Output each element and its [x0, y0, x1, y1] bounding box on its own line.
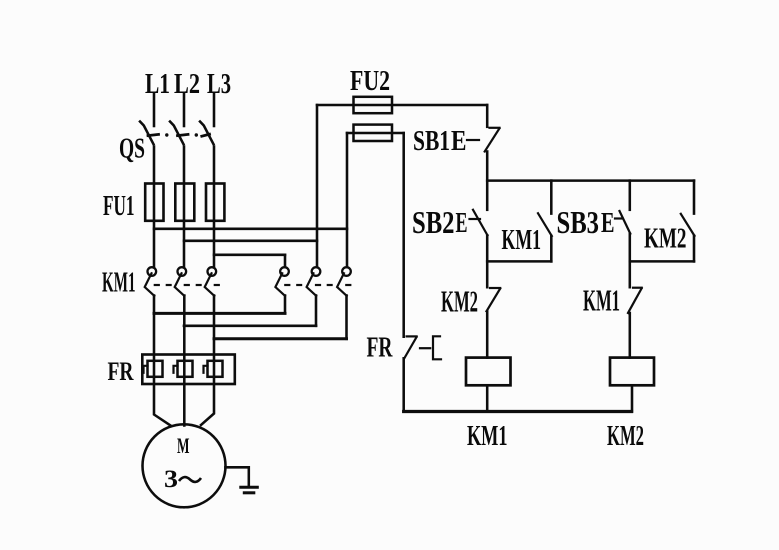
svg-text:KM2: KM2: [607, 421, 644, 452]
svg-text:L1: L1: [145, 69, 170, 100]
svg-text:E: E: [601, 208, 615, 239]
svg-text:E: E: [451, 126, 467, 157]
svg-text:3: 3: [164, 464, 178, 493]
svg-text:FU1: FU1: [103, 191, 135, 222]
svg-text:SB2: SB2: [412, 205, 455, 240]
svg-text:KM1: KM1: [102, 268, 136, 299]
svg-text:SB3: SB3: [557, 205, 600, 240]
svg-text:FR: FR: [367, 333, 394, 364]
svg-text:QS: QS: [119, 134, 145, 165]
svg-text:KM1: KM1: [467, 421, 508, 452]
svg-text:KM2: KM2: [441, 284, 478, 319]
svg-text:KM1: KM1: [583, 283, 620, 318]
svg-text:FR: FR: [108, 357, 134, 386]
svg-text:SB1: SB1: [413, 125, 450, 157]
svg-text:L2: L2: [174, 69, 200, 100]
svg-text:L3: L3: [207, 69, 231, 100]
svg-text:M: M: [177, 433, 190, 458]
svg-text:E: E: [456, 208, 468, 239]
svg-text:KM1: KM1: [502, 225, 542, 256]
svg-text:KM2: KM2: [644, 224, 687, 255]
svg-text:FU2: FU2: [350, 65, 390, 97]
